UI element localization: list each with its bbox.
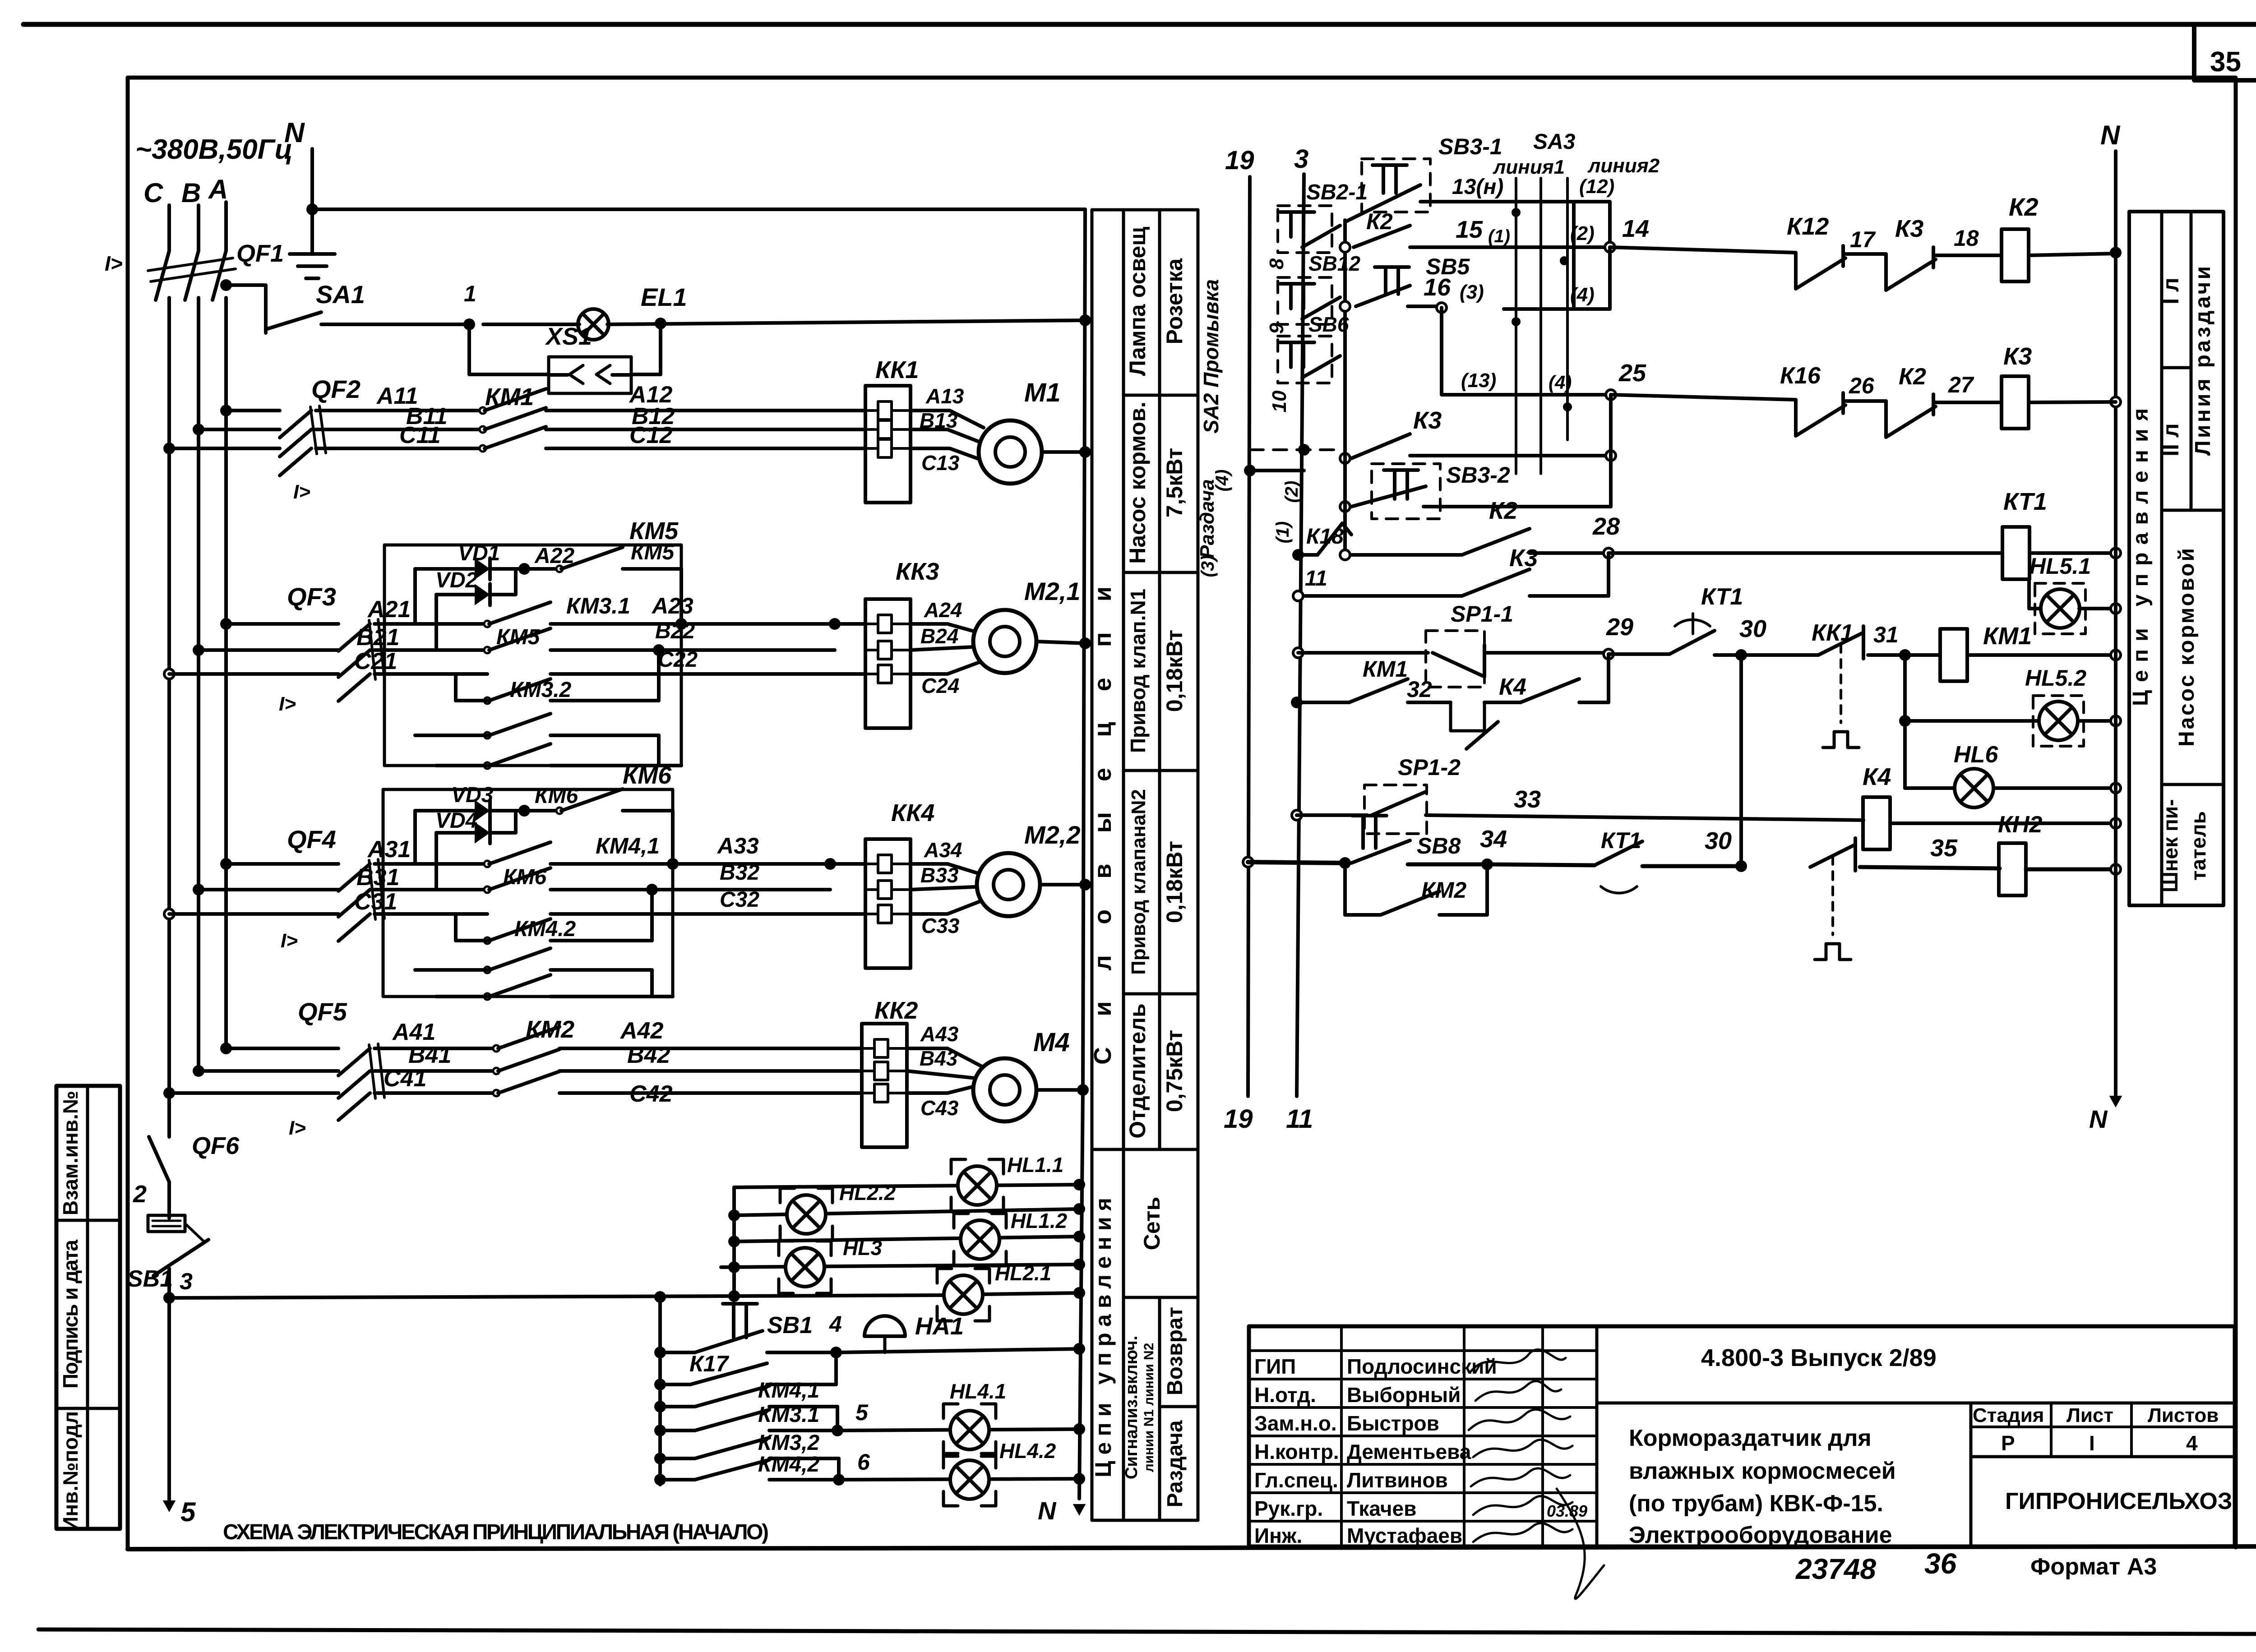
- svg-text:КМ4,1: КМ4,1: [596, 833, 660, 858]
- svg-text:К3: К3: [2003, 343, 2032, 370]
- title block signatures (squiggles): [1469, 1349, 1604, 1599]
- wire B42: [559, 1042, 862, 1071]
- contact KM4.1: [484, 833, 830, 867]
- bell HA1: [864, 1313, 964, 1352]
- node HL6 N: [2111, 783, 2121, 793]
- node A21: [220, 618, 232, 630]
- svg-text:В: В: [181, 178, 201, 208]
- svg-text:КН2: КН2: [1998, 812, 2043, 838]
- wire 32: [1407, 677, 1451, 702]
- contact K2 (line 25): [1886, 364, 1936, 437]
- wire M2.1 to bus: [1036, 641, 1085, 643]
- thermal contact (line 35): [1810, 838, 1855, 960]
- wire A34: [911, 838, 981, 874]
- wire A42: [559, 1018, 862, 1048]
- wire A11: [226, 383, 483, 411]
- label 8: [1266, 258, 1288, 269]
- svg-text:КМ3,2: КМ3,2: [758, 1431, 820, 1455]
- node sp12 left: [1292, 810, 1302, 820]
- contact K3 (wash row): [1351, 407, 1442, 458]
- breaker QF4: [287, 825, 384, 941]
- title stage cells: [1973, 1404, 2219, 1455]
- svg-text:А23: А23: [651, 593, 693, 618]
- socket XS1: [469, 323, 661, 393]
- svg-text:QF6: QF6: [192, 1132, 240, 1159]
- caption: [223, 1520, 769, 1544]
- node 11: [1293, 567, 1327, 601]
- svg-text:SВ6: SВ6: [1308, 313, 1349, 336]
- svg-text:30: 30: [1739, 615, 1766, 642]
- svg-text:КМ6: КМ6: [503, 865, 546, 889]
- svg-text:Выборный: Выборный: [1347, 1383, 1461, 1407]
- title block signature rows: [1254, 1355, 1587, 1547]
- wire C43: [907, 1085, 978, 1120]
- wire B43: [907, 1047, 975, 1078]
- svg-text:18: 18: [1954, 226, 1979, 251]
- N label right top: [2100, 120, 2121, 150]
- SA2 dashed wash line: [1250, 444, 1336, 456]
- label 19 bottom: [1224, 1104, 1253, 1134]
- svg-text:4: 4: [829, 1311, 842, 1337]
- node C41: [163, 1087, 175, 1099]
- svg-text:6: 6: [857, 1449, 870, 1475]
- button SB3-1 (dashed): [1362, 134, 1502, 212]
- svg-text:С41: С41: [384, 1066, 426, 1092]
- contact KM3.2 row: [456, 674, 659, 704]
- node HL2.1 bus: [1073, 1287, 1085, 1299]
- wire C24: [911, 662, 979, 697]
- contact KM1 aux: [1297, 656, 1408, 702]
- svg-text:А33: А33: [717, 833, 759, 858]
- svg-text:К4: К4: [1863, 763, 1891, 790]
- diode VD2: [435, 568, 516, 605]
- wire 33: [1426, 786, 1863, 820]
- svg-text:КК1: КК1: [875, 356, 919, 383]
- svg-text:SВ3-2: SВ3-2: [1446, 462, 1510, 488]
- svg-text:А21: А21: [367, 596, 411, 623]
- contact K12: [1787, 213, 1845, 289]
- svg-text:КМ6: КМ6: [623, 762, 672, 789]
- svg-text:5: 5: [180, 1497, 196, 1527]
- svg-text:EL1: EL1: [641, 283, 687, 311]
- svg-text:30: 30: [1705, 827, 1732, 854]
- svg-text:М2,1: М2,1: [1024, 577, 1081, 605]
- diode VD1: [415, 541, 524, 580]
- phase bus C: [167, 298, 171, 1093]
- node HA1 bus: [1073, 1343, 1085, 1355]
- contact KM4.2 row: [456, 914, 652, 944]
- svg-text:(1): (1): [1488, 226, 1510, 246]
- svg-text:С21: С21: [354, 648, 397, 674]
- svg-text:HL4.2: HL4.2: [999, 1439, 1056, 1463]
- wire C32: [550, 888, 865, 914]
- button SB2-1 (dashed): [1278, 180, 1368, 253]
- node km1 row: [1291, 697, 1303, 708]
- breaker QF1: [148, 240, 284, 300]
- node k3 right: [1606, 451, 1616, 461]
- wire HL1.2 row: [734, 1237, 1079, 1241]
- wire M1 to bus: [1042, 450, 1085, 454]
- node 28 N: [2111, 548, 2121, 558]
- svg-text:QF1: QF1: [236, 240, 284, 267]
- svg-text:К17: К17: [689, 1351, 730, 1376]
- svg-text:0,18кВт: 0,18кВт: [1162, 630, 1187, 712]
- contact KM4.2 aux row: [660, 1453, 839, 1480]
- svg-text:КМ2: КМ2: [1421, 877, 1466, 903]
- svg-text:(3): (3): [1460, 281, 1484, 303]
- svg-text:4.800-3 Выпуск 2/89: 4.800-3 Выпуск 2/89: [1701, 1344, 1937, 1371]
- node 19 bottom: [1243, 857, 1253, 867]
- svg-text:КМ2: КМ2: [526, 1016, 574, 1043]
- wire C31: [169, 889, 487, 915]
- svg-text:Насос кормов.: Насос кормов.: [1125, 401, 1150, 564]
- page top border line: [23, 22, 2256, 27]
- wire line3 to bus: [734, 1293, 1079, 1296]
- svg-text:SA1: SA1: [316, 280, 365, 309]
- lamp HL5.1 (dashed box): [2029, 554, 2091, 634]
- node HL2.2 bus: [1073, 1203, 1085, 1215]
- svg-text:Инж.: Инж.: [1254, 1524, 1302, 1547]
- svg-text:HL5.1: HL5.1: [2029, 554, 2091, 579]
- SA3 labels: [1493, 130, 1660, 198]
- line 19 label top: [1225, 146, 1254, 175]
- svg-text:HL2.2: HL2.2: [839, 1181, 896, 1204]
- svg-text:В32: В32: [720, 861, 759, 885]
- svg-text:(2): (2): [1282, 481, 1302, 503]
- svg-text:В31: В31: [356, 864, 399, 891]
- wire 17: [1843, 227, 1886, 254]
- control N bus vertical: [1079, 209, 1085, 1499]
- relay coil K2: [2002, 193, 2039, 281]
- svg-text:5: 5: [855, 1400, 869, 1425]
- lamp HL5.2 (dashed box): [2025, 665, 2086, 746]
- svg-text:К3: К3: [1895, 215, 1923, 242]
- contact K3 (line 14): [1886, 215, 1936, 290]
- button SB12 (dashed): [1278, 252, 1360, 324]
- wire 33-N: [1890, 821, 2116, 825]
- wire A13: [911, 384, 984, 428]
- wire 32 right: [1579, 654, 1609, 702]
- svg-text:7,5кВт: 7,5кВт: [1162, 448, 1187, 517]
- svg-text:В13: В13: [920, 409, 958, 432]
- svg-text:QF5: QF5: [298, 997, 347, 1026]
- svg-text:SB1: SB1: [127, 1266, 173, 1292]
- node K17 row: [654, 1379, 666, 1390]
- svg-text:С24: С24: [921, 674, 959, 697]
- node N-ground: [306, 203, 318, 215]
- node 3 left: [163, 1269, 193, 1304]
- node B21: [193, 644, 204, 656]
- lamp HL1.2: [954, 1209, 1068, 1266]
- branch 30 vertical: [1739, 655, 1743, 866]
- svg-text:23748: 23748: [1795, 1553, 1876, 1585]
- svg-text:КМ3.1: КМ3.1: [566, 593, 630, 618]
- node line14 N: [2110, 247, 2122, 258]
- contact K2 (line 28): [1351, 497, 1530, 555]
- svg-text:С31: С31: [354, 889, 397, 915]
- svg-text:Гл.спец.: Гл.спец.: [1254, 1468, 1338, 1492]
- title doc number: [1701, 1344, 1937, 1371]
- node K18 line3: [1292, 549, 1304, 561]
- svg-text:Раздача: Раздача: [1163, 1420, 1187, 1507]
- svg-text:HL5.2: HL5.2: [2025, 665, 2086, 691]
- contact K17 row: [660, 1351, 836, 1384]
- contact KM3.2 aux row: [660, 1431, 839, 1480]
- svg-text:Ткачев: Ткачев: [1347, 1497, 1416, 1520]
- title block grid: [1249, 1326, 2235, 1546]
- node HL1.2 tap: [728, 1236, 740, 1247]
- thermal relay KK3: [865, 558, 939, 728]
- group2 right links: [646, 811, 679, 997]
- node C11: [163, 443, 175, 454]
- svg-text:С32: С32: [720, 888, 759, 912]
- node KM4.1 row: [654, 1401, 666, 1412]
- svg-text:КМ4.2: КМ4.2: [514, 917, 576, 941]
- node HL3 bus: [1073, 1259, 1085, 1270]
- svg-text:Лампа освещ: Лампа освещ: [1125, 227, 1150, 376]
- node EL1 right: [655, 318, 666, 329]
- svg-text:Р: Р: [2001, 1431, 2015, 1455]
- wire kt1-30b: [1642, 864, 1741, 868]
- node 14: [1605, 215, 1649, 252]
- wire C12: [546, 422, 865, 448]
- time contact KT1 (line 29-30): [1669, 584, 1743, 654]
- wire B11: [199, 403, 483, 429]
- node A41: [220, 1043, 232, 1054]
- svg-text:I: I: [2089, 1431, 2095, 1455]
- node k3 row: [1340, 453, 1350, 463]
- svg-text:Отделитель: Отделитель: [1125, 1003, 1150, 1139]
- svg-text:А13: А13: [925, 384, 964, 408]
- node QF1-A out: [220, 279, 232, 291]
- svg-text:КМ5: КМ5: [629, 517, 679, 545]
- breaker QF2: [280, 375, 361, 475]
- node M1 bus: [1079, 446, 1091, 458]
- node M2.2 bus: [1079, 879, 1091, 891]
- svg-text:SА2 Промывка: SА2 Промывка: [1199, 279, 1223, 434]
- left stamp boxes (Инв.№подл / Подпись и дата / Взам.инв.№): [56, 1086, 120, 1532]
- label 10: [1268, 390, 1290, 412]
- node sb32 row: [1340, 502, 1350, 512]
- wire sp12 lead: [1297, 813, 1367, 817]
- svg-text:А22: А22: [534, 544, 574, 568]
- wire HL6 row: [1905, 786, 2116, 790]
- QF5 release mark: [289, 1117, 306, 1139]
- svg-text:33: 33: [1514, 786, 1541, 813]
- KM6 group label: [623, 762, 672, 789]
- contact KM5 upper: [524, 540, 681, 572]
- svg-text:А41: А41: [392, 1019, 435, 1045]
- node A31: [220, 858, 232, 870]
- button SB5: [1356, 254, 1470, 306]
- svg-text:36: 36: [1924, 1547, 1957, 1580]
- sheet number 35 box: [2194, 24, 2256, 80]
- svg-text:КТ1: КТ1: [2003, 488, 2047, 515]
- svg-text:М2,2: М2,2: [1024, 821, 1081, 849]
- wire M4 to bus: [1036, 1088, 1083, 1092]
- branch vertical to K17 block: [658, 1297, 662, 1485]
- svg-text:I>: I>: [281, 930, 298, 952]
- svg-text:I л: I л: [2158, 277, 2183, 305]
- svg-text:КК3: КК3: [896, 558, 939, 585]
- node A23 junction: [829, 618, 841, 630]
- button SB6 (dashed): [1278, 313, 1349, 383]
- SB chain vertical: [1343, 220, 1347, 550]
- node 31: [1873, 622, 1911, 661]
- wire B31: [199, 864, 487, 891]
- svg-text:Литвинов: Литвинов: [1347, 1468, 1448, 1492]
- node HL1.1 bus: [1073, 1179, 1085, 1191]
- wire B24: [911, 624, 974, 650]
- svg-text:С33: С33: [921, 914, 960, 937]
- breaker QF6: [149, 1093, 240, 1182]
- svg-text:I>: I>: [289, 1117, 306, 1139]
- node HL2.2 tap: [728, 1209, 740, 1221]
- svg-text:КТ1: КТ1: [1701, 584, 1743, 610]
- wire 15: [1410, 216, 1610, 247]
- wire A41: [226, 1019, 496, 1048]
- wire C13: [911, 448, 985, 475]
- wire HL2.2 row: [734, 1209, 1079, 1215]
- svg-text:Рук.гр.: Рук.гр.: [1254, 1497, 1323, 1520]
- node 30: [1735, 615, 1766, 661]
- wire C11: [169, 422, 483, 448]
- node M2.1 bus: [1079, 637, 1091, 649]
- wire 35: [1860, 835, 2000, 868]
- svg-text:2: 2: [133, 1181, 147, 1208]
- phase stubs: [169, 202, 226, 251]
- wire B41: [199, 1042, 496, 1071]
- node C21: [164, 669, 174, 679]
- wire 3 down to sheet arrow: [163, 1298, 196, 1527]
- contact K4 (row 32): [1484, 674, 1579, 702]
- svg-text:HL1.2: HL1.2: [1011, 1209, 1068, 1232]
- lamp feeder vertical: [732, 1187, 736, 1296]
- node B41: [193, 1065, 204, 1077]
- svg-text:SВ8: SВ8: [1417, 833, 1461, 858]
- wire 16: [1408, 274, 1484, 306]
- svg-text:М4: М4: [1033, 1028, 1070, 1057]
- contact K18: [1298, 523, 1351, 555]
- svg-text:35: 35: [1930, 835, 1958, 862]
- wire sb32 row: [1424, 505, 1611, 508]
- node sb8 left: [1339, 857, 1351, 869]
- svg-text:КК1: КК1: [1812, 620, 1854, 646]
- svg-text:В41: В41: [408, 1042, 451, 1068]
- ground wire: [310, 209, 314, 253]
- relay coil KH2: [1998, 812, 2043, 895]
- svg-text:В21: В21: [356, 624, 399, 651]
- diode VD3: [415, 783, 524, 821]
- wire A21: [226, 596, 487, 624]
- wire 18: [1933, 226, 2002, 255]
- line 3/11 vertical: [1297, 174, 1304, 1096]
- right table grid: [2129, 212, 2224, 905]
- svg-text:HL3: HL3: [843, 1236, 882, 1260]
- svg-text:В43: В43: [920, 1047, 958, 1070]
- svg-text:Н.отд.: Н.отд.: [1254, 1383, 1316, 1407]
- svg-text:I>: I>: [293, 481, 310, 503]
- QF3 release mark: [279, 693, 296, 715]
- svg-text:11: 11: [1305, 567, 1327, 591]
- svg-text:QF2: QF2: [311, 375, 361, 403]
- wire SA1-EL1: [483, 323, 579, 326]
- svg-text:SВ3-1: SВ3-1: [1438, 134, 1502, 159]
- wire 29 right: [1609, 652, 1669, 656]
- node KM4.2 end: [654, 1474, 666, 1486]
- node 3 branch: [654, 1291, 666, 1303]
- svg-text:17: 17: [1850, 227, 1876, 252]
- svg-text:Подпись и дата: Подпись и дата: [59, 1240, 82, 1389]
- thermal contact KK1 (control): [1812, 620, 1863, 748]
- label 9: [1266, 323, 1288, 334]
- wire 35-N: [2026, 868, 2116, 872]
- svg-text:В24: В24: [920, 624, 958, 648]
- node sb chain 16: [1340, 301, 1350, 311]
- title org name: [2005, 1488, 2232, 1514]
- N bus horizontal: [312, 208, 1085, 211]
- handwritten 23748 36: [1795, 1547, 1957, 1585]
- node HL4.1 bus: [1073, 1423, 1085, 1435]
- lamp HL3: [779, 1236, 882, 1293]
- lower contacts of group 1: [415, 714, 681, 769]
- contact SP1-1 second (jog): [1451, 702, 1498, 749]
- relay coil K3: [2002, 343, 2032, 429]
- svg-text:А43: А43: [920, 1022, 959, 1046]
- svg-text:К2: К2: [2009, 193, 2039, 221]
- contact KM6 upper: [524, 789, 673, 814]
- svg-text:КМ1: КМ1: [1363, 656, 1408, 682]
- svg-text:Стадия: Стадия: [1973, 1404, 2044, 1426]
- pressure switch SP1-1 (dashed box): [1426, 601, 1513, 687]
- lamp HL4.2: [943, 1439, 1056, 1506]
- svg-text:SВ12: SВ12: [1308, 252, 1360, 275]
- svg-text:SА3: SА3: [1533, 130, 1576, 154]
- wire B13: [911, 409, 980, 442]
- svg-text:НА1: НА1: [915, 1313, 964, 1340]
- svg-text:Привод клапанаN2: Привод клапанаN2: [1128, 789, 1150, 975]
- phase bus B: [197, 298, 200, 1071]
- node A22: [518, 544, 574, 575]
- wire HA1 row: [836, 1349, 1079, 1352]
- svg-text:(1): (1): [1273, 521, 1293, 544]
- svg-text:КМ3.2: КМ3.2: [510, 678, 572, 702]
- svg-text:КМ4,1: КМ4,1: [758, 1379, 819, 1403]
- svg-text:(12): (12): [1579, 175, 1614, 198]
- node HL1.2 bus: [1073, 1231, 1085, 1242]
- SA3 dashed lines: [1516, 178, 1567, 474]
- node C31: [164, 909, 174, 919]
- relay coil K4: [1863, 763, 1891, 849]
- wire A23: [651, 593, 865, 624]
- wire B32: [720, 861, 759, 885]
- svg-text:QF3: QF3: [287, 582, 336, 611]
- button SB1 (start) row: [660, 1304, 836, 1352]
- svg-text:31: 31: [1873, 622, 1899, 647]
- branch vertical 31: [1903, 655, 1907, 788]
- title project name: [1629, 1425, 1896, 1548]
- wire 34-kt1: [1487, 864, 1595, 865]
- page bottom border line: [38, 1629, 2256, 1634]
- format note: [2030, 1554, 2157, 1580]
- svg-text:Сеть: Сеть: [1139, 1197, 1165, 1250]
- lamp EL1: [578, 283, 687, 340]
- svg-text:XS1: XS1: [545, 323, 592, 350]
- svg-text:В42: В42: [627, 1042, 670, 1068]
- svg-text:Формат А3: Формат А3: [2030, 1554, 2157, 1580]
- reversing group box KM4/KM6: [383, 789, 673, 997]
- node sa2 19: [1244, 465, 1304, 476]
